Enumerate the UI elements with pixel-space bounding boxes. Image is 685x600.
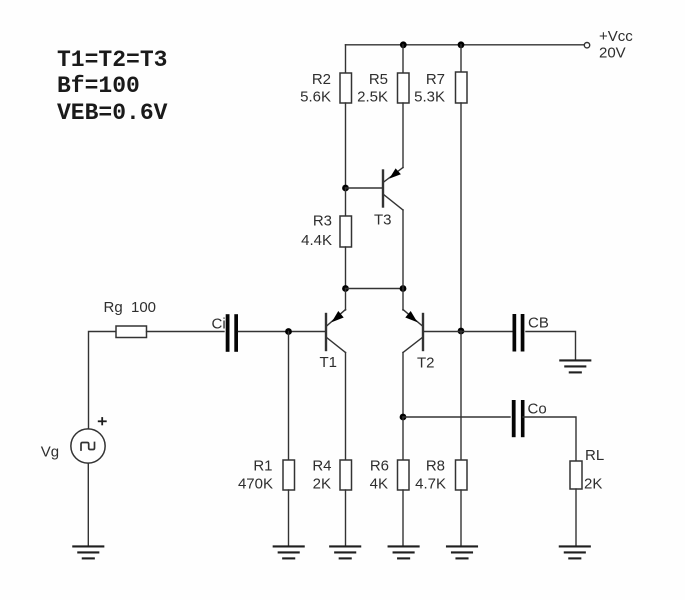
svg-text:R5: R5 [369, 71, 388, 88]
label Ci [212, 316, 226, 333]
wire R8 top lead [460, 331, 462, 460]
wire emitter rail T1-T2 [346, 288, 404, 290]
label T1 [320, 354, 338, 371]
node T1 emitter junction [342, 285, 349, 292]
svg-text:R1: R1 [253, 458, 272, 475]
svg-text:R6: R6 [370, 458, 389, 475]
svg-text:R2: R2 [312, 71, 331, 88]
label T2 [417, 355, 435, 372]
label R4 2K [312, 458, 331, 493]
svg-text:T2: T2 [417, 355, 435, 372]
svg-text:4.7K: 4.7K [415, 476, 446, 493]
wire R4 bottom lead [345, 490, 347, 546]
resistor R5 [398, 73, 410, 103]
svg-text:4K: 4K [370, 476, 388, 493]
terminal +Vcc [584, 43, 589, 48]
svg-text:2K: 2K [584, 476, 602, 493]
svg-text:Ci: Ci [212, 316, 226, 333]
capacitor Co [512, 400, 525, 437]
svg-text:100: 100 [131, 299, 156, 316]
svg-text:R8: R8 [426, 458, 445, 475]
resistor R3 [340, 216, 352, 247]
wire T3 base [346, 187, 383, 189]
node rail-R5 junction [400, 41, 407, 48]
wire CB input [461, 331, 513, 333]
label R5 2.5K [357, 71, 388, 106]
label R2 5.6K [300, 71, 331, 106]
svg-text:20V: 20V [599, 45, 626, 62]
wire R6 top lead [402, 417, 404, 460]
wire R3 bottom lead [345, 247, 347, 289]
wire T3 collector lead [402, 210, 404, 289]
node T2 emitter junction [400, 285, 407, 292]
wire R7 bottom lead [460, 103, 462, 331]
wire +Vcc rail [346, 44, 584, 46]
wire Vg top lead to Rg [89, 332, 117, 429]
label R7 5.3K [414, 71, 445, 106]
svg-text:T3: T3 [374, 212, 392, 229]
wire T2 emitter lead [402, 289, 404, 311]
annotation circuit parameters [57, 47, 168, 126]
ground R1 [274, 546, 304, 558]
resistor R4 [340, 460, 352, 490]
ground RL [560, 546, 590, 558]
ground Vg [73, 546, 103, 558]
label + polarity [99, 418, 106, 424]
wire R6 bottom lead [402, 490, 404, 546]
svg-text:T1=T2=T3: T1=T2=T3 [57, 47, 167, 73]
svg-text:+Vcc: +Vcc [599, 28, 633, 45]
capacitor Ci [226, 314, 238, 352]
wire R2 bottom lead [345, 103, 347, 188]
node T2 base / CB junction [458, 328, 465, 335]
svg-text:R3: R3 [313, 213, 332, 230]
node T3 base junction [342, 185, 349, 192]
label R8 4.7K [415, 458, 446, 493]
label R1 470K [238, 458, 273, 493]
label T3 [374, 212, 392, 229]
svg-text:CB: CB [528, 315, 549, 332]
wire Rg to Ci [147, 331, 225, 333]
resistor R2 [340, 73, 352, 103]
node T2 collector / Co junction [400, 414, 407, 421]
wire RL bottom lead [575, 489, 577, 546]
wire Co to RL [523, 417, 576, 461]
wire T1 emitter lead [345, 289, 347, 311]
ground CB [560, 360, 590, 372]
resistor R6 [398, 460, 410, 490]
ground R4 [330, 546, 360, 558]
transistor T3 [383, 168, 403, 211]
label CB [528, 315, 549, 332]
label R6 4K [370, 458, 389, 493]
resistor R7 [456, 72, 468, 103]
wire Vg bottom lead [87, 463, 89, 546]
wire R8 bottom lead [460, 490, 462, 546]
wire T2 base [424, 331, 461, 333]
label R3 4.4K [301, 213, 332, 250]
label Co [528, 401, 547, 418]
resistor R1 [283, 460, 295, 490]
svg-text:Bf=100: Bf=100 [57, 73, 140, 99]
svg-text:T1: T1 [320, 354, 338, 371]
wire R7 top lead [460, 45, 462, 72]
ground R8 [447, 546, 477, 558]
svg-text:2K: 2K [313, 476, 331, 493]
wire Ci to T1 base [239, 331, 326, 333]
label Rg 100 [104, 299, 157, 316]
resistor Rg [116, 326, 147, 338]
svg-text:Co: Co [528, 401, 547, 418]
svg-text:R7: R7 [426, 71, 445, 88]
label +Vcc 20V [599, 28, 633, 62]
ground R6 [389, 546, 419, 558]
svg-text:R4: R4 [312, 458, 331, 475]
wire T2 collector lead [402, 353, 404, 418]
capacitor CB [513, 314, 525, 352]
wire R1 bottom lead [288, 490, 290, 546]
transistor T2 [403, 310, 423, 353]
transistor T1 [326, 310, 346, 353]
resistor R8 [456, 460, 468, 490]
svg-text:Rg: Rg [104, 299, 123, 316]
svg-text:RL: RL [585, 447, 604, 464]
svg-text:5.6K: 5.6K [300, 89, 331, 106]
wire R2 top lead [345, 45, 347, 73]
wire R5 top lead [402, 45, 404, 73]
wire R1 top lead [288, 332, 290, 461]
svg-text:4.4K: 4.4K [301, 232, 332, 249]
svg-text:Vg: Vg [41, 444, 59, 461]
wire R3 top lead [345, 188, 347, 216]
svg-text:2.5K: 2.5K [357, 89, 388, 106]
label Vg [41, 444, 59, 461]
node T1 base / R1 junction [285, 328, 292, 335]
wire Co input [403, 416, 510, 418]
voltage source Vg [71, 429, 105, 463]
svg-text:VEB=0.6V: VEB=0.6V [57, 100, 168, 126]
resistor RL [570, 461, 582, 489]
svg-text:5.3K: 5.3K [414, 89, 445, 106]
wire T1 collector lead [345, 353, 347, 461]
wire CB to ground [526, 332, 576, 360]
wire T3 emitter lead [402, 103, 404, 168]
label RL 2K [584, 447, 604, 493]
svg-text:470K: 470K [238, 476, 273, 493]
node rail-R7 junction [458, 41, 465, 48]
